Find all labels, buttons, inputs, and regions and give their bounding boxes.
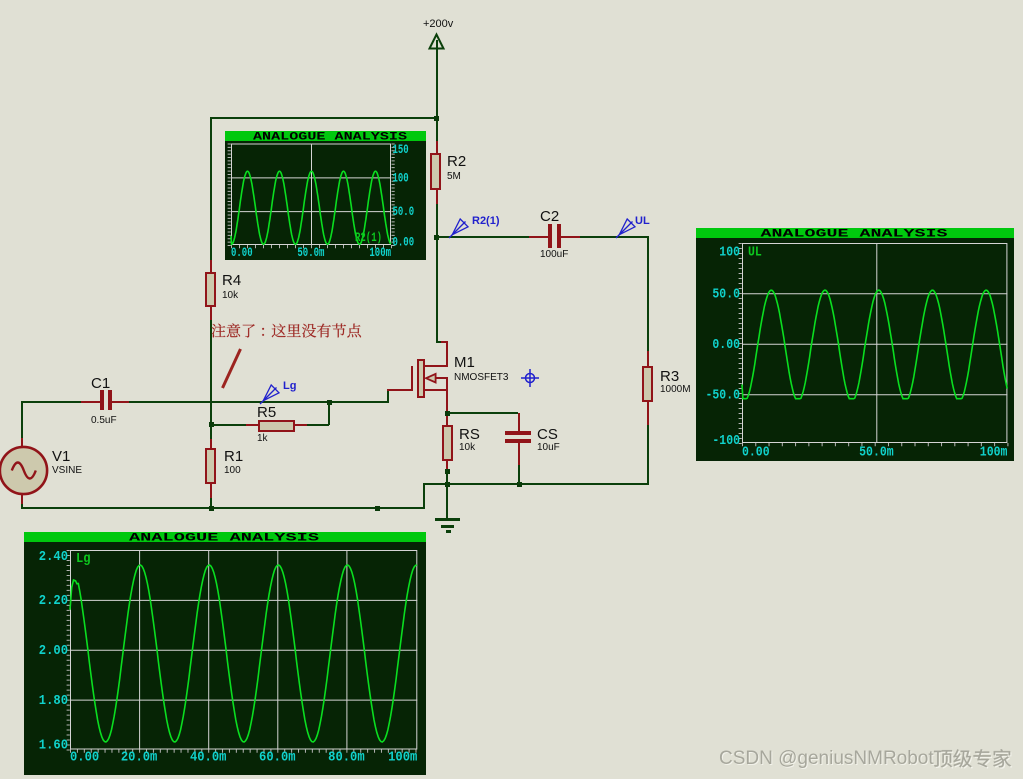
source V1 (VSINE) xyxy=(0,444,50,498)
svg-text:2.00: 2.00 xyxy=(39,643,68,659)
resistor RS xyxy=(442,425,453,461)
watermark cjk part: 顶级专家 xyxy=(933,747,1015,771)
wire rail upper to ground node xyxy=(423,483,448,485)
resistor R2 xyxy=(430,153,441,190)
pin M1 drain vertical xyxy=(446,341,448,367)
svg-text:50.0m: 50.0m xyxy=(297,246,324,260)
svg-text:60.0m: 60.0m xyxy=(259,750,296,766)
value R5 = 1k xyxy=(257,434,268,444)
M1 bulk lead xyxy=(436,377,447,379)
value R3 = 1000M xyxy=(660,385,691,395)
annotation pointer line xyxy=(218,347,244,393)
svg-text:-100: -100 xyxy=(712,433,740,449)
value R4 = 10k xyxy=(222,291,238,301)
power label +200v xyxy=(423,19,453,30)
junction source node xyxy=(445,411,450,416)
wire wire to R5 left xyxy=(212,424,246,426)
value RS = 10k xyxy=(459,443,475,453)
wire wire R2 bottom to node R2(1) xyxy=(436,204,438,238)
junction node R2(1) xyxy=(434,235,439,240)
wire wire R5 right to branch xyxy=(307,424,329,426)
wire top horizontal y=118 graph-left to R2 column xyxy=(210,117,438,119)
origin crosshair marker xyxy=(520,368,540,388)
svg-text:-50.0: -50.0 xyxy=(706,388,741,404)
label C2 xyxy=(540,209,559,224)
wire bottom rail from V1 xyxy=(21,507,425,509)
pin R1 bottom xyxy=(210,484,212,498)
wire wire R1 to bottom rail xyxy=(210,498,212,509)
pin V1 minus xyxy=(21,494,23,504)
svg-text:100: 100 xyxy=(719,244,740,260)
junction R5 left / R1 top xyxy=(209,422,214,427)
junction rail join xyxy=(375,506,380,511)
junction input wire to R5 branch xyxy=(327,400,332,405)
label R1 xyxy=(224,449,243,464)
graph ANALOGUE ANALYSIS - UL voltage xyxy=(696,228,1014,461)
wire wire down to R3 xyxy=(647,236,649,351)
svg-text:100m: 100m xyxy=(388,750,417,766)
pin CS bottom xyxy=(518,443,520,465)
wire wire source node to CS xyxy=(448,412,518,414)
junction CS bottom on rail xyxy=(517,482,522,487)
drain jog maroon part xyxy=(441,341,448,343)
wire input wire V1 to C1 xyxy=(21,401,81,403)
svg-text:0.00: 0.00 xyxy=(70,750,99,766)
wire wire junction to R1 xyxy=(210,426,212,439)
wire wire node R2(1) down to drain jog xyxy=(436,237,438,343)
value C1 = 0.5uF xyxy=(91,416,117,426)
wire wire CS to rail xyxy=(518,465,520,484)
M1 gate line xyxy=(411,366,413,391)
wire drain jog horizontal xyxy=(436,341,443,343)
svg-text:40.0m: 40.0m xyxy=(190,750,227,766)
pin C1 right xyxy=(112,401,129,403)
M1 channel bar xyxy=(417,359,425,398)
wire wire to ground symbol xyxy=(446,485,448,519)
voltage probe R2(1) xyxy=(448,216,470,239)
pin R5 right xyxy=(295,424,307,426)
wire wire RS to ground node xyxy=(446,469,448,484)
value CS = 10uF xyxy=(537,443,560,453)
svg-text:0.00: 0.00 xyxy=(742,445,770,461)
junction RS bottom wire join xyxy=(445,469,450,474)
annotation text: 注意了：这里没有节点 (red) xyxy=(210,322,363,339)
pin C2 left xyxy=(529,236,549,238)
label R4 xyxy=(222,273,241,288)
label R3 xyxy=(660,369,679,384)
pin C2 right xyxy=(561,236,580,238)
svg-text:1.60: 1.60 xyxy=(39,737,68,753)
svg-text:UL: UL xyxy=(748,244,762,260)
pin M1 gate lead xyxy=(387,389,411,391)
wire power stem down to R2 xyxy=(436,40,438,141)
value R1 = 100 xyxy=(224,466,241,476)
ground symbol xyxy=(435,518,460,521)
value M1 = NMOSFET3 xyxy=(454,373,508,383)
pin R3 bottom xyxy=(647,402,649,426)
svg-text:100m: 100m xyxy=(980,445,1008,461)
svg-text:50.0: 50.0 xyxy=(392,205,414,219)
label C1 xyxy=(91,376,110,391)
pin RS bottom xyxy=(446,460,448,469)
M1 source lead xyxy=(424,389,447,391)
label R2 xyxy=(447,154,466,169)
pin R4 bottom xyxy=(210,307,212,320)
svg-text:50.0m: 50.0m xyxy=(859,445,894,461)
graph ANALOGUE ANALYSIS - R2(1) current xyxy=(225,131,426,260)
pin R5 left xyxy=(246,424,258,426)
pin R2 bottom xyxy=(436,190,438,204)
label RS xyxy=(459,427,480,442)
svg-text:Lg: Lg xyxy=(76,551,91,567)
wire rail step up xyxy=(423,484,425,509)
svg-text:80.0m: 80.0m xyxy=(328,750,365,766)
svg-text:50.0: 50.0 xyxy=(712,287,740,303)
svg-text:ANALOGUE ANALYSIS: ANALOGUE ANALYSIS xyxy=(253,131,408,143)
svg-text:100: 100 xyxy=(392,171,408,185)
wire ground rail to CS and R3 xyxy=(447,483,649,485)
probe label R2(1) xyxy=(472,216,500,227)
label M1 xyxy=(454,355,475,370)
capacitor C2 plate left xyxy=(548,224,552,248)
junction at R2 top node xyxy=(434,116,439,121)
voltage probe UL xyxy=(615,216,637,239)
capacitor C2 plate right xyxy=(557,224,561,248)
svg-text:ANALOGUE ANALYSIS: ANALOGUE ANALYSIS xyxy=(129,532,320,544)
M1 drain lead xyxy=(424,365,447,367)
M1 right vertical (source/bulk) xyxy=(446,377,448,413)
pin V1 plus xyxy=(21,438,23,448)
svg-text:ANALOGUE ANALYSIS: ANALOGUE ANALYSIS xyxy=(761,228,949,240)
label CS xyxy=(537,427,558,442)
pin R3 top xyxy=(647,351,649,366)
voltage probe Lg xyxy=(259,382,281,405)
pin RS top xyxy=(446,413,448,425)
wire wire C2 to R3 top xyxy=(580,236,650,238)
wire wire down to R5 right lead xyxy=(328,403,330,425)
wire left vertical down to R4 xyxy=(210,117,212,260)
label V1 xyxy=(52,449,70,464)
svg-text:2.20: 2.20 xyxy=(39,593,68,609)
wire node R2(1) to C2 left lead xyxy=(437,236,530,238)
capacitor CS plate top xyxy=(505,431,532,435)
svg-text:1.80: 1.80 xyxy=(39,693,68,709)
resistor R1 xyxy=(205,448,216,484)
watermark latin part xyxy=(719,752,934,766)
svg-text:R2(1): R2(1) xyxy=(355,231,382,245)
value V1 = VSINE xyxy=(52,466,82,476)
pin R4 top xyxy=(210,260,212,272)
wire wire R3 bottom to ground rail xyxy=(647,425,649,485)
svg-text:20.0m: 20.0m xyxy=(121,750,158,766)
label R5 xyxy=(257,405,276,420)
wire wire gate step down xyxy=(387,391,389,403)
svg-text:0.00: 0.00 xyxy=(712,337,740,353)
pin R1 top xyxy=(210,439,212,449)
probe label Lg xyxy=(283,381,296,392)
wire wire V1 to bottom rail xyxy=(21,504,23,509)
svg-text:2.40: 2.40 xyxy=(39,549,68,565)
junction R1 bottom on rail xyxy=(209,506,214,511)
svg-text:150: 150 xyxy=(392,143,408,157)
capacitor C1 plate left xyxy=(100,390,104,410)
value C2 = 100uF xyxy=(540,250,568,260)
resistor R5 xyxy=(258,420,295,432)
pin C1 left xyxy=(81,401,100,403)
svg-text:0.00: 0.00 xyxy=(392,235,414,249)
capacitor CS plate bottom xyxy=(505,439,532,443)
graph ANALOGUE ANALYSIS - Lg gate voltage xyxy=(24,532,426,775)
capacitor C1 plate right xyxy=(108,390,112,410)
svg-text:100m: 100m xyxy=(369,246,391,260)
M1 substrate arrow xyxy=(424,372,438,385)
wire input wire C1 to M1 gate (crosses R4-R1 wire) xyxy=(129,401,389,403)
resistor R4 xyxy=(205,272,216,307)
value R2 = 5M xyxy=(447,172,461,182)
junction ground node xyxy=(445,482,450,487)
wire wire R4 to R5/R1 junction (crosses input wire, no node) xyxy=(210,320,212,426)
power terminal +200v arrow xyxy=(427,32,446,51)
pin R2 top xyxy=(436,141,438,154)
pin CS top xyxy=(518,413,520,431)
resistor R3 xyxy=(642,366,653,402)
probe label UL xyxy=(635,216,650,227)
wire wire input down to V1 xyxy=(21,401,23,439)
svg-text:0.00: 0.00 xyxy=(231,246,253,260)
